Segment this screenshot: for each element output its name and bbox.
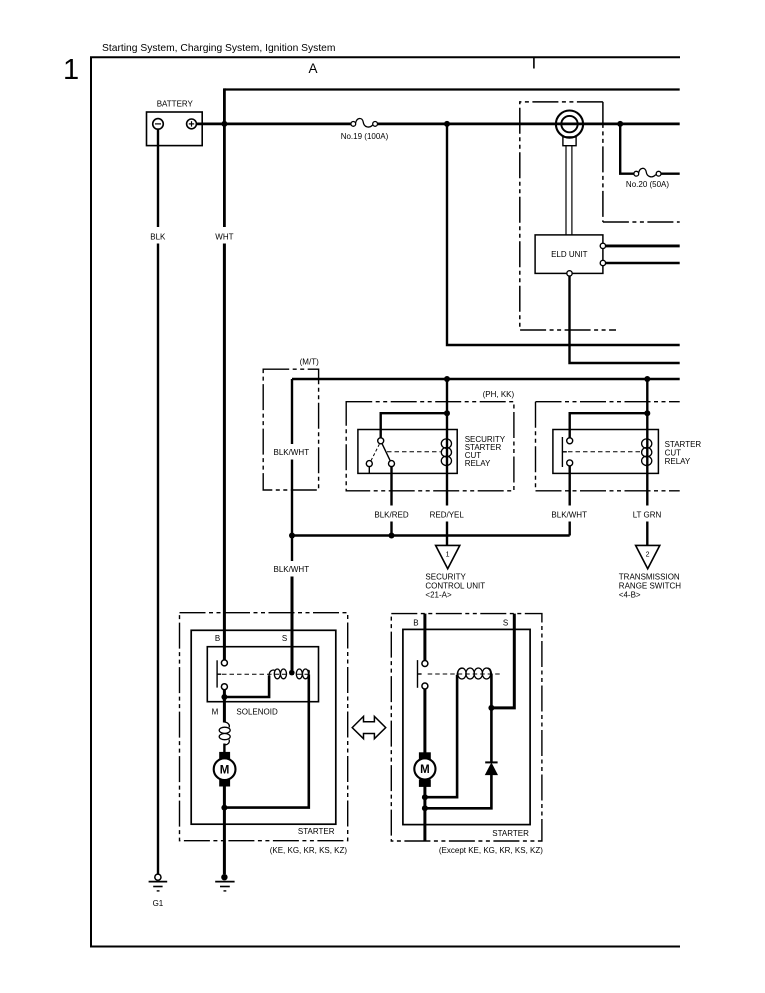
junction dot starter 2 motor return: [422, 805, 428, 811]
solenoid switch upper contact: [221, 660, 227, 666]
junction dot M: [221, 694, 227, 700]
wire starter cut relay feed jog: [570, 379, 648, 438]
svg-text:WHT: WHT: [215, 233, 233, 242]
wire ELD output 1: [606, 244, 680, 247]
svg-text:STARTER: STARTER: [492, 829, 529, 838]
ELD current sensor eyelet: [563, 137, 576, 146]
wire starter 2 B lead: [423, 614, 426, 661]
svg-text:<4-B>: <4-B>: [619, 591, 641, 600]
svg-text:M: M: [212, 708, 219, 717]
junction dot security relay jog: [444, 410, 450, 416]
fuse No.20 (50A): [634, 171, 639, 176]
svg-text:M: M: [420, 764, 430, 776]
svg-text:1: 1: [446, 552, 450, 559]
svg-text:B: B: [413, 619, 418, 628]
wire starter 2 motor lead: [423, 689, 426, 841]
motor M2: [414, 758, 435, 779]
relay K1 switch arm: [382, 444, 390, 461]
wire solenoid pull-in winding lead: [224, 676, 269, 698]
svg-text:RED/YEL: RED/YEL: [430, 510, 465, 519]
motor M1 brush upper: [219, 752, 230, 759]
ground G1: [155, 874, 161, 880]
svg-text:STARTER: STARTER: [298, 827, 335, 836]
relay K1 switch NC contact: [366, 461, 372, 467]
wire starter cut relay coil lead: [646, 413, 648, 467]
svg-text:BLK/WHT: BLK/WHT: [551, 510, 587, 519]
starter 1 inner box: [191, 630, 336, 824]
junction dot bus/security relay: [444, 376, 450, 382]
svg-text:BLK/WHT: BLK/WHT: [274, 565, 310, 574]
solenoid movable contact bar: [216, 660, 218, 687]
junction dot BLK/RED bus: [389, 533, 395, 539]
junction dot starter cut relay jog: [644, 410, 650, 416]
starter 2 solenoid coil: [457, 668, 491, 679]
svg-text:RELAY: RELAY: [665, 457, 691, 466]
wire security relay coil lead: [446, 413, 448, 467]
wire BLK/WHT from bus (M/T): [291, 379, 293, 444]
relay K2 switch upper contact: [567, 438, 573, 444]
starter 2 actuation link (dashed): [428, 673, 500, 675]
svg-text:S: S: [503, 619, 508, 628]
svg-text:TRANSMISSION: TRANSMISSION: [619, 573, 680, 582]
starter 1 solenoid box: [207, 647, 318, 702]
wire RED/YEL: [446, 467, 448, 506]
motor M2 brush upper: [419, 752, 431, 760]
battery positive terminal: [187, 119, 197, 129]
wire starter signal bus: [292, 534, 570, 536]
motor M1 brush lower: [219, 780, 230, 787]
wire feed branch right: [447, 124, 680, 345]
relay K1 switch common contact: [378, 438, 384, 444]
motor M1: [214, 758, 236, 780]
ELD unit U1: [535, 235, 603, 274]
motor field coil: [219, 722, 230, 745]
wire starter 2 coil left lead: [427, 675, 457, 797]
wire solenoid hold winding return: [227, 675, 309, 808]
svg-text:BATTERY: BATTERY: [157, 100, 194, 109]
wire BLK lower: [157, 244, 159, 875]
svg-text:No.19 (100A): No.19 (100A): [341, 132, 389, 141]
relay K1 SECURITY STARTER CUT RELAY box: [358, 430, 457, 474]
wire BLK upper: [157, 129, 159, 227]
connector triangle 2: [636, 545, 660, 568]
diode D1: [485, 761, 497, 763]
wire motor to ground: [223, 787, 226, 875]
svg-text:B: B: [215, 634, 220, 643]
junction dot battery/WHT: [221, 121, 227, 127]
starter 2 switch lower contact: [422, 683, 428, 689]
wire starter 2 coil right lead: [490, 674, 493, 762]
svg-text:CONTROL UNIT: CONTROL UNIT: [425, 582, 485, 591]
svg-text:BLK/RED: BLK/RED: [374, 510, 408, 519]
svg-text:SOLENOID: SOLENOID: [236, 708, 278, 717]
junction dot solenoid S tap: [289, 670, 295, 676]
wire relay feed bus: [292, 378, 680, 380]
wire battery bus: [196, 123, 351, 126]
wire M junction: [223, 690, 226, 723]
wire starter 2 S jog: [493, 614, 514, 708]
relay K1 NC stub wire: [368, 467, 370, 474]
svg-text:(PH, KK): (PH, KK): [483, 390, 515, 399]
svg-text:<21-A>: <21-A>: [425, 591, 452, 600]
svg-text:1: 1: [63, 54, 79, 86]
fuse No.19 (100A): [351, 122, 356, 127]
wire WHT lower: [223, 244, 226, 660]
svg-text:No.20 (50A): No.20 (50A): [626, 180, 669, 189]
wire to fuse No.20: [620, 124, 634, 174]
svg-text:(M/T): (M/T): [300, 358, 319, 367]
junction dot starter 2 coil left: [422, 794, 428, 800]
starter 2 inner box: [403, 629, 530, 824]
ground starter body: [221, 874, 227, 880]
starter 2 switch upper contact: [422, 661, 428, 667]
ELD pin right 1: [600, 243, 605, 248]
junction dot motor return: [221, 805, 227, 811]
relay K2 switch lower contact: [567, 460, 573, 466]
junction dot battery/No.20: [617, 121, 623, 127]
solenoid actuation link (dashed): [222, 673, 311, 675]
svg-text:S: S: [282, 634, 287, 643]
wire LT GRN: [646, 467, 648, 506]
svg-text:(Except KE, KG, KR, KS, KZ): (Except KE, KG, KR, KS, KZ): [439, 846, 543, 855]
junction dot bus/starter cut relay: [644, 376, 650, 382]
svg-text:G1: G1: [153, 899, 164, 908]
solenoid coil windings: [269, 669, 309, 679]
relay K1 switch NO contact: [389, 461, 395, 467]
starter 2 movable contact bar: [417, 660, 419, 688]
svg-text:BLK: BLK: [150, 233, 166, 242]
frame tick mark: [533, 57, 535, 69]
wire WHT upper: [223, 88, 226, 227]
relay K2 actuation link (dashed): [568, 451, 641, 453]
svg-text:RANGE SWITCH: RANGE SWITCH: [619, 582, 681, 591]
svg-text:BLK/WHT: BLK/WHT: [274, 448, 310, 457]
wire ELD output 2: [606, 262, 680, 264]
junction dot BLK/WHT bus: [289, 533, 295, 539]
wire BLK/WHT relay output: [569, 466, 571, 506]
wire security relay feed jog: [381, 379, 447, 438]
connector triangle 1: [436, 545, 460, 568]
svg-text:Starting System, Charging Syst: Starting System, Charging System, Igniti…: [102, 43, 336, 54]
wire ELD bottom output: [570, 276, 680, 363]
junction dot battery/feed: [444, 121, 450, 127]
svg-text:ELD UNIT: ELD UNIT: [551, 250, 588, 259]
relay K2 movable contact bar: [561, 437, 563, 467]
junction dot starter 2 S: [488, 705, 494, 711]
border frame: [91, 57, 680, 946]
wire sensor to ELD unit (double line): [565, 146, 567, 235]
wire bus A: [224, 88, 679, 90]
relay K2 coil: [642, 439, 652, 466]
svg-text:SECURITY: SECURITY: [425, 573, 466, 582]
battery negative terminal: [153, 119, 164, 130]
svg-text:2: 2: [646, 552, 650, 559]
ELD pin right 2: [600, 260, 605, 265]
starter cut relay dash-dot box: [536, 402, 680, 491]
wire BLK/RED: [390, 467, 392, 506]
svg-text:(KE, KG, KR, KS, KZ): (KE, KG, KR, KS, KZ): [270, 846, 348, 855]
wire coil to motor: [223, 744, 225, 754]
motor M2 brush lower: [419, 779, 431, 787]
svg-text:M: M: [220, 764, 230, 776]
solenoid switch lower contact: [221, 684, 227, 690]
relay K1 coil: [441, 439, 451, 466]
ELD pin bottom: [567, 271, 572, 276]
wire diode to motor return: [427, 774, 491, 809]
ELD enclosure dash-dot box: [520, 102, 680, 330]
starter 2 dash-dot box (Except KE, KG, KR, KS, KZ): [391, 614, 542, 841]
relay K2 STARTER CUT RELAY box: [553, 430, 659, 474]
relay K1 switch arm alternate (dashed): [371, 444, 379, 460]
equivalence double arrow: [352, 716, 386, 738]
starter 1 dash-dot box (KE, KG, KR, KS, KZ): [180, 613, 348, 841]
svg-text:RELAY: RELAY: [465, 459, 491, 468]
svg-text:A: A: [308, 61, 317, 76]
svg-text:LT GRN: LT GRN: [633, 510, 662, 519]
relay K1 actuation link (dashed): [387, 451, 441, 453]
